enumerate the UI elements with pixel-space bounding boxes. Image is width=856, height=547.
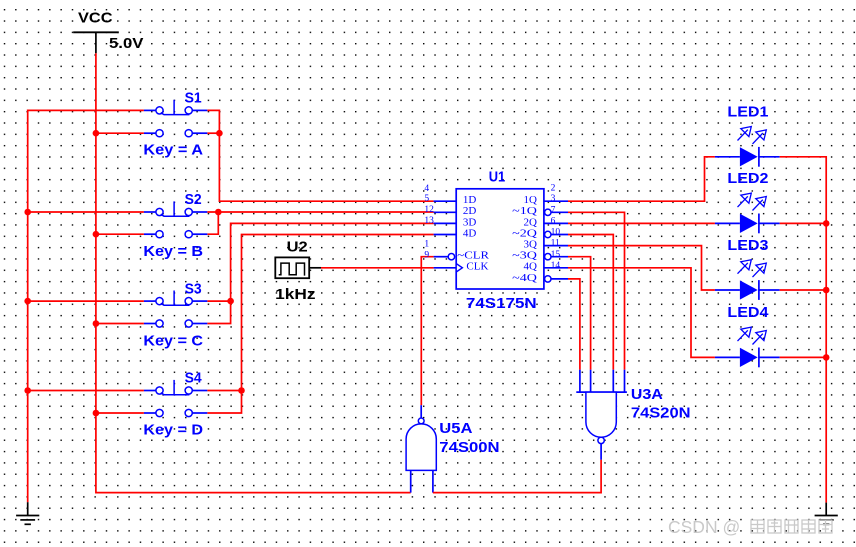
svg-text:Key = C: Key = C [143,332,203,349]
power VCC [73,10,143,54]
LED4 [715,304,780,367]
svg-text:S4: S4 [185,370,203,387]
svg-text:VCC: VCC [78,10,113,27]
svg-text:1kHz: 1kHz [275,286,315,303]
wire S2 to U1 pin 2D [207,212,433,234]
wire S3 top feed [28,300,144,302]
switch S4 Key=D [143,370,207,439]
wire S4 top feed [28,390,144,392]
wire U1 1Q to LED1 [568,157,715,201]
wire U1 3Q to LED3 [568,246,715,290]
wire U1 ~CLR to U5A output [421,257,433,406]
svg-text:11: 11 [551,239,560,249]
switch S1 Key=A [143,90,207,159]
wire S4 to U1 pin 4D [207,235,433,414]
svg-text:~4Q: ~4Q [512,272,537,284]
switch S3 Key=C [143,280,207,349]
wire S4 bottom feed [96,412,144,414]
wire LED2 to right rail [780,222,827,224]
wire S2 top feed [28,211,144,213]
svg-text:10: 10 [551,228,561,238]
svg-text:4: 4 [424,184,429,194]
wire S1 to U1 pin 1D [207,110,433,201]
svg-text:S2: S2 [185,191,202,208]
svg-text:9: 9 [424,250,429,260]
node junction dots [24,130,829,416]
wire U1 2Q to LED2 [568,222,715,224]
svg-text:CLK: CLK [466,261,488,273]
svg-text:15: 15 [551,250,561,260]
svg-text:LED4: LED4 [727,304,769,321]
svg-text:4D: 4D [463,227,477,239]
svg-text:14: 14 [551,261,561,271]
svg-text:5.0V: 5.0V [109,35,143,52]
ground [16,502,39,524]
wire U1 ~1Q to U3A input d [568,212,625,369]
wire LED1 to right rail and ground [780,157,827,503]
switch S2 Key=B [143,191,207,260]
transistor U5A 74S00N NAND gate [406,405,499,492]
svg-text:2: 2 [551,184,556,194]
wire S1 bottom feed [96,132,144,134]
transistor U3A 74S20N NAND gate [576,370,690,460]
op-amp U1 74S175N body [434,169,568,312]
svg-text:Key = B: Key = B [143,243,203,260]
wire S3 to U1 pin 3D [207,223,433,323]
wire VCC rail to bottom [96,53,411,492]
svg-text:LED2: LED2 [727,170,768,187]
svg-text:U1: U1 [489,169,506,186]
wire U1 4Q to LED4 [568,268,715,358]
LED2 [715,170,780,233]
LED3 [715,237,780,300]
svg-text:S3: S3 [185,280,202,297]
svg-text:LED1: LED1 [727,104,768,121]
wire ground rail left [28,110,144,502]
svg-text:74S20N: 74S20N [631,405,691,422]
svg-text:3: 3 [551,194,556,204]
svg-text:7: 7 [551,205,556,215]
wire LED4 to right rail [780,356,827,358]
pin numbers U1 right [551,184,561,271]
wire U1 ~3Q to U3A input b [568,257,591,370]
svg-text:5: 5 [424,194,429,204]
LED1 [715,104,780,167]
ground right [815,503,838,525]
svg-text:13: 13 [424,216,434,226]
svg-text:1: 1 [424,239,429,249]
svg-text:Key = A: Key = A [143,142,203,159]
svg-text:74S175N: 74S175N [466,295,537,312]
wire S3 bottom feed [96,323,144,325]
svg-text:U5A: U5A [439,420,472,437]
svg-text:12: 12 [424,205,434,215]
svg-text:U3A: U3A [631,386,663,403]
wire U3A output to bottom [433,460,601,493]
svg-text:6: 6 [551,216,556,226]
clock source U2 1kHz [275,238,321,303]
wire S2 bottom feed [96,233,144,235]
svg-text:LED3: LED3 [727,237,768,254]
svg-text:S1: S1 [185,90,202,107]
wire U2 to U1 CLK [321,267,434,269]
wire LED3 to right rail [780,289,827,291]
svg-text:74S00N: 74S00N [439,439,499,456]
svg-text:Key = D: Key = D [143,422,203,439]
wire U1 ~4Q to U3A input a [568,279,580,370]
pin numbers U1 left [424,184,434,260]
svg-text:CSDN @: CSDN @ [668,517,740,537]
svg-text:U2: U2 [287,238,308,255]
wire U1 ~2Q to U3A input c [568,235,613,370]
